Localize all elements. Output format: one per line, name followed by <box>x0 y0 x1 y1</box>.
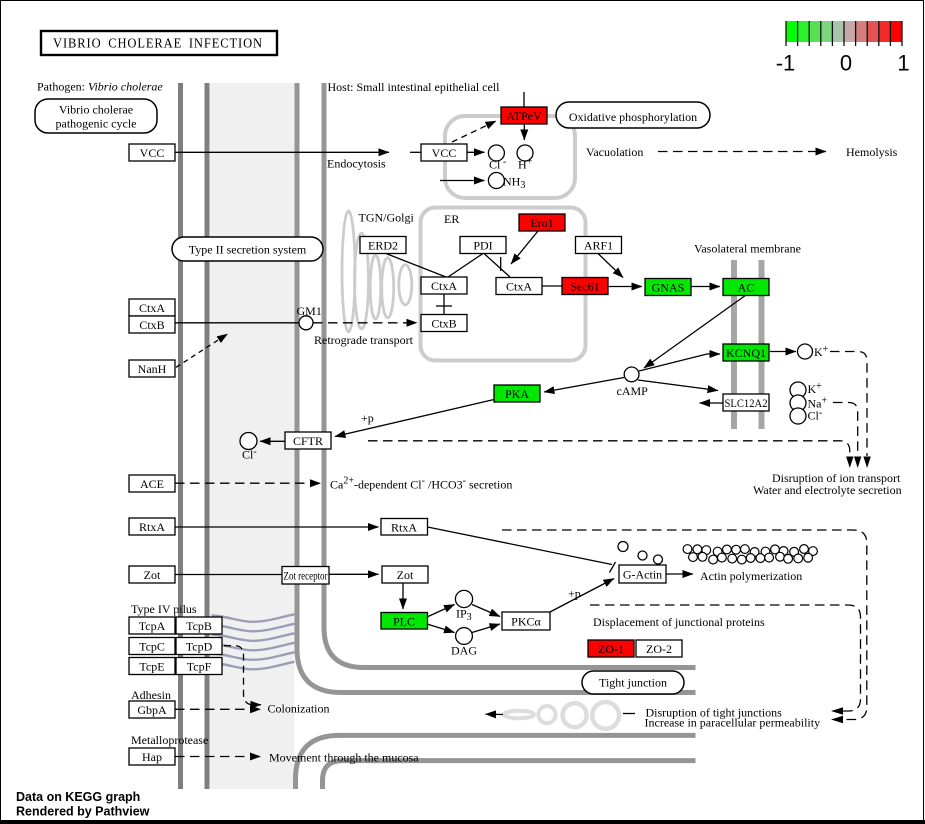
wire CtxA to CtxB binding <box>443 294 445 315</box>
golgi ellipse 5 <box>399 265 412 305</box>
gene CtxB col <box>129 316 175 333</box>
wire PDI to CtxA left <box>448 254 483 278</box>
gene ARF1 <box>576 237 622 254</box>
gene TcpD <box>176 638 222 655</box>
svg-text:Zot: Zot <box>144 568 161 582</box>
svg-text:Type IV pilus: Type IV pilus <box>131 602 197 616</box>
color key ticks <box>785 21 787 46</box>
svg-text:CtxB: CtxB <box>139 318 164 332</box>
wire PLC to DAG <box>427 624 455 633</box>
gene KCNQ1 <box>723 344 769 361</box>
svg-text:Type II secretion system: Type II secretion system <box>189 243 307 257</box>
wire cAMP to SLC12A2 <box>638 380 718 391</box>
wire Zot receptor to Zot <box>329 573 379 575</box>
wire dashed GbpA to colonization <box>175 708 261 710</box>
gene Zot left <box>129 566 175 583</box>
svg-text:CtxA: CtxA <box>139 301 165 315</box>
vacuole <box>445 116 575 198</box>
svg-text:TGN/Golgi: TGN/Golgi <box>359 211 415 225</box>
crypt membrane lower bar curving down <box>323 761 696 789</box>
svg-text:Ca2+-dependent Cl- /HCO3- secr: Ca2+-dependent Cl- /HCO3- secretion <box>330 476 512 492</box>
host membrane outer line with curve <box>297 83 696 693</box>
gene G-Actin <box>619 565 666 583</box>
wire dashed TcpD to colonization <box>224 646 261 705</box>
pilus squiggle 4 <box>212 643 295 651</box>
svg-text:VCC: VCC <box>140 146 165 160</box>
wire PLC to IP3 <box>427 605 455 618</box>
svg-text:Adhesin: Adhesin <box>131 688 171 702</box>
svg-text:TcpD: TcpD <box>186 640 213 654</box>
vasolateral membrane bar 1 <box>731 260 737 429</box>
svg-text:Data on KEGG graph: Data on KEGG graph <box>16 790 140 804</box>
wire dashed displacement region to tight junction disruption <box>590 605 861 711</box>
svg-text:Oxidative phosphorylation: Oxidative phosphorylation <box>569 110 697 124</box>
svg-text:GM1: GM1 <box>297 304 322 318</box>
wire dashed vacuolation to hemolysis <box>658 151 826 153</box>
wire RtxA to RtxA <box>175 526 379 528</box>
gene PKCa <box>502 612 550 630</box>
wire disrupted junction pointer <box>486 713 504 715</box>
ORGANELLES <box>212 116 619 729</box>
svg-text:1: 1 <box>897 51 909 76</box>
svg-text:ATPeV: ATPeV <box>506 109 542 123</box>
wire Zot to PLC <box>402 582 404 609</box>
gene Sec61 <box>562 278 608 295</box>
wire CFTR to Cl circle <box>260 440 285 442</box>
svg-text:ZO-1: ZO-1 <box>598 642 624 656</box>
golgi ellipse 3 <box>370 255 381 319</box>
gene RtxA right <box>381 519 428 536</box>
svg-text:Vacuolation: Vacuolation <box>586 145 643 159</box>
gene CtxA ER right <box>496 278 542 295</box>
golgi ellipse 4 <box>382 258 394 318</box>
arrowhead ion 2 <box>854 457 861 469</box>
gene ACE <box>129 475 175 492</box>
svg-text:-1: -1 <box>776 51 796 76</box>
arrowhead ion 1 <box>846 457 853 469</box>
wire dashed NanH arrow <box>176 334 228 367</box>
svg-text:RtxA: RtxA <box>139 520 165 534</box>
svg-text:CtxA: CtxA <box>431 279 457 293</box>
wire CtxA to Sec61 <box>542 285 562 287</box>
circle Cl- bottom <box>790 408 806 424</box>
gene TcpC <box>129 638 175 655</box>
wire dashed ACE secretion <box>175 482 321 484</box>
svg-text:Actin polymerization: Actin polymerization <box>700 569 802 583</box>
svg-text:ZO-2: ZO-2 <box>646 642 672 656</box>
disrupted tight junction bead 3 <box>538 706 555 723</box>
circle Cl vacuole <box>488 145 504 161</box>
gene Ero1 <box>519 214 565 231</box>
gene ERD2 <box>360 237 406 254</box>
svg-text:0: 0 <box>840 51 852 76</box>
wire VCC short connector <box>410 151 421 153</box>
svg-text:CtxA: CtxA <box>506 280 532 294</box>
pilus squiggle 1 <box>212 614 295 622</box>
svg-text:Colonization: Colonization <box>268 702 330 716</box>
wire cAMP to KCNQ1 <box>639 354 720 371</box>
disrupted tight junction bead 5 <box>592 702 619 729</box>
svg-text:GNAS: GNAS <box>652 281 685 295</box>
circle Cl- CFTR <box>240 433 257 450</box>
wire IP3 to PKCa <box>472 605 500 617</box>
wire PKA to CFTR +p <box>335 400 494 437</box>
wire dashed VCC to ATPeV <box>452 121 496 142</box>
svg-text:CFTR: CFTR <box>293 434 323 448</box>
wire ARF1 arrow <box>598 254 623 278</box>
actin polymer beads <box>683 545 817 564</box>
svg-text:cAMP: cAMP <box>617 384 649 398</box>
svg-text:VCC: VCC <box>432 146 457 160</box>
wire PKCa to G-Actin +p <box>550 579 614 613</box>
svg-text:ACE: ACE <box>140 477 164 491</box>
pilus squiggle 5 <box>212 652 295 660</box>
pill Tight junction <box>582 671 684 694</box>
circle K+ mid <box>790 382 806 398</box>
crypt membrane upper bar curving down <box>296 735 696 789</box>
G-actin monomer 2 <box>638 551 647 560</box>
svg-text:ERD2: ERD2 <box>368 239 398 253</box>
svg-text:TcpC: TcpC <box>139 640 165 654</box>
svg-text:PKCα: PKCα <box>511 615 541 629</box>
gene ZO-1 <box>588 640 634 657</box>
arrowhead permeability <box>831 716 843 723</box>
circle Na+ <box>790 395 806 411</box>
wire dashed GM1 retrograde to CtxB <box>313 322 417 324</box>
svg-text:Host: Small intestinal epithel: Host: Small intestinal epithelial cell <box>328 80 501 94</box>
wire KCNQ1 to K+ <box>770 351 796 353</box>
pill Vibrio cholerae pathogenic cycle <box>35 99 157 133</box>
svg-text:Rendered by Pathview: Rendered by Pathview <box>16 805 150 819</box>
wire VCC to Cl circle <box>467 151 485 153</box>
gene GbpA <box>129 701 175 718</box>
host membrane inner line with curve to tight junction bar <box>324 83 696 668</box>
gene TcpB <box>176 617 222 634</box>
svg-text:+p: +p <box>361 411 374 425</box>
gene RtxA left <box>129 518 175 535</box>
svg-text:+p: +p <box>568 587 581 601</box>
gene TcpA <box>129 617 175 634</box>
wire ATPeV to H+ <box>523 124 525 140</box>
gene CtxA col <box>129 299 175 316</box>
pill Type II secretion system <box>172 237 323 261</box>
pilus squiggle 3 <box>212 633 295 641</box>
svg-text:CtxB: CtxB <box>431 317 456 331</box>
wire host label to ATPeV <box>523 92 525 107</box>
wire dashed Hap to mucosa <box>175 756 261 758</box>
wire dashed Na+ ion path <box>833 403 858 457</box>
crossbar tick <box>436 305 452 307</box>
svg-text:G-Actin: G-Actin <box>623 568 662 582</box>
wire DAG to PKCa <box>472 624 500 633</box>
color key gradient bar <box>786 21 798 42</box>
svg-text:Hemolysis: Hemolysis <box>846 145 898 159</box>
svg-text:SLC12A2: SLC12A2 <box>725 396 768 410</box>
svg-text:Water and electrolyte secretio: Water and electrolyte secretion <box>753 483 902 497</box>
svg-text:Retrograde transport: Retrograde transport <box>314 333 414 347</box>
svg-text:Zot: Zot <box>397 568 414 582</box>
circle NH3 vacuole <box>488 173 504 189</box>
svg-text:Metalloprotease: Metalloprotease <box>131 733 208 747</box>
svg-text:Hap: Hap <box>142 750 162 764</box>
svg-text:Vasolateral membrane: Vasolateral membrane <box>694 242 801 256</box>
wire G-Actin to actin polymerization <box>666 573 693 575</box>
arrowhead tight junction disruption <box>831 707 843 714</box>
svg-text:Ero1: Ero1 <box>530 216 553 230</box>
wire RtxA to G-Actin <box>428 527 613 565</box>
svg-text:NanH: NanH <box>138 362 167 376</box>
disrupted tight junction bead small 1 <box>504 711 534 719</box>
svg-text:TcpB: TcpB <box>186 619 212 633</box>
svg-text:Tight junction: Tight junction <box>599 676 667 690</box>
gene CtxB ER <box>421 315 467 332</box>
pilus squiggle 2 <box>212 624 295 632</box>
svg-text:TcpA: TcpA <box>139 619 166 633</box>
svg-text:Vibrio cholerae: Vibrio cholerae <box>59 103 133 117</box>
svg-text:DAG: DAG <box>451 644 477 658</box>
wire dashed CFTR ion secretion path <box>368 441 850 456</box>
gene AC <box>723 279 769 296</box>
periplasm light band <box>210 83 295 789</box>
gene ZO-2 <box>636 640 682 657</box>
wire AC to cAMP <box>644 295 746 368</box>
svg-text:Zot receptor: Zot receptor <box>284 569 328 583</box>
svg-text:KCNQ1: KCNQ1 <box>726 346 766 360</box>
svg-text:PDI: PDI <box>473 239 492 253</box>
tick on PDI-CtxA wire <box>500 257 502 271</box>
gene Hap <box>129 748 175 765</box>
wire dashed actin region to permeability <box>502 530 867 720</box>
gene TcpE <box>129 658 175 675</box>
gene PKA <box>494 385 540 402</box>
ER outline <box>421 208 586 361</box>
svg-text:Movement through the mucosa: Movement through the mucosa <box>269 751 419 765</box>
svg-text:GbpA: GbpA <box>137 703 167 717</box>
wire VCC to VCC endocytosis <box>175 151 389 153</box>
pathogen membrane line 2 <box>205 83 210 789</box>
svg-text:Increase in paracellular perme: Increase in paracellular permeability <box>645 716 821 730</box>
circle cAMP <box>624 367 639 382</box>
gene CFTR <box>285 432 331 449</box>
dash junction label link <box>623 713 635 715</box>
pill Oxidative phosphorylation <box>556 102 710 128</box>
slash cleavage mark <box>610 562 616 573</box>
svg-text:TcpF: TcpF <box>187 660 212 674</box>
wire ERD2 to CtxA <box>386 254 446 278</box>
gene Zot right <box>382 566 428 583</box>
gene ATPeV <box>501 107 547 124</box>
gene PLC <box>381 613 428 630</box>
svg-text:PKA: PKA <box>505 387 529 401</box>
wire GNAS to AC <box>691 286 720 288</box>
circle H+ vacuole <box>517 145 533 161</box>
svg-text:TcpE: TcpE <box>139 660 164 674</box>
wire Sec61 to GNAS <box>608 286 642 288</box>
gene TcpF <box>176 658 222 675</box>
svg-text:ER: ER <box>444 212 459 226</box>
arrowhead ion 3 <box>863 457 870 469</box>
svg-text:AC: AC <box>738 281 755 295</box>
svg-text:Endocytosis: Endocytosis <box>327 157 386 171</box>
gene CtxA ER left <box>421 277 467 294</box>
circle K+ top <box>798 344 813 359</box>
golgi ellipse 1 <box>342 211 355 332</box>
gene VCC left <box>129 144 175 161</box>
svg-text:Sec61: Sec61 <box>570 280 599 294</box>
gene Zot receptor <box>282 567 329 585</box>
gene VCC right <box>421 144 467 161</box>
KEY <box>776 21 910 76</box>
gene SLC12A2 <box>723 394 769 411</box>
wire CtxB to GM1 <box>175 322 299 324</box>
svg-text:Pathogen: Vibrio cholerae: Pathogen: Vibrio cholerae <box>37 80 163 94</box>
title box <box>41 31 277 55</box>
circle IP3 <box>455 590 472 607</box>
wire PDI to CtxA right <box>484 254 510 278</box>
G-actin monomer 1 <box>618 542 628 552</box>
gene GNAS <box>645 279 691 296</box>
pilus squiggle 6 <box>212 662 295 670</box>
svg-text:RtxA: RtxA <box>391 521 417 535</box>
wire dashed K+ ion path <box>830 352 867 457</box>
G-actin monomer 3 <box>654 555 663 564</box>
wire Zot to Zot receptor <box>175 574 282 576</box>
MEMBRANES <box>181 83 762 789</box>
wire SLC12A2 out arrow <box>700 402 724 404</box>
svg-text:Displacement of junctional pro: Displacement of junctional proteins <box>593 615 765 629</box>
svg-text:PLC: PLC <box>393 615 415 629</box>
svg-text:pathogenic cycle: pathogenic cycle <box>56 117 137 131</box>
wire cAMP to PKA <box>544 378 624 393</box>
circle DAG <box>456 628 473 645</box>
gene PDI <box>460 237 506 254</box>
pathogen membrane line 1 <box>178 83 183 789</box>
vasolateral membrane bar 2 <box>759 260 765 429</box>
wire to NH3 circle <box>440 180 485 182</box>
svg-text:VIBRIO CHOLERAE INFECTION: VIBRIO CHOLERAE INFECTION <box>53 37 263 52</box>
circle GM1 <box>299 316 313 330</box>
disrupted tight junction bead 4 <box>563 703 587 727</box>
svg-text:ARF1: ARF1 <box>584 239 613 253</box>
golgi ellipse 2 <box>355 233 369 329</box>
wire Ero1 arrow <box>511 231 538 264</box>
gene NanH <box>129 360 175 377</box>
